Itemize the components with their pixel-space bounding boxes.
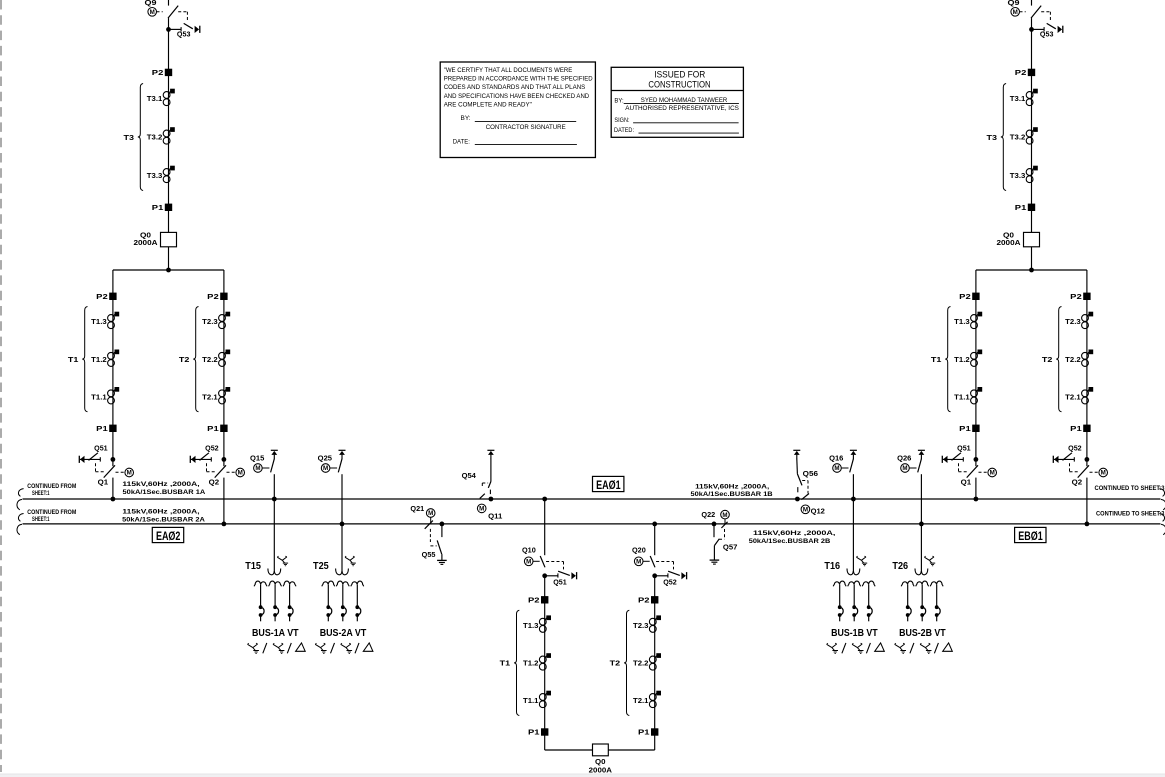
svg-text:P2: P2 [528, 597, 540, 604]
svg-text:T2.3: T2.3 [633, 623, 649, 630]
svg-text:T16: T16 [824, 561, 840, 572]
svg-text:M: M [323, 465, 328, 472]
svg-text:P2: P2 [1070, 294, 1082, 301]
svg-text:T3.2: T3.2 [1010, 135, 1026, 142]
svg-text:EAØ1: EAØ1 [596, 480, 621, 492]
svg-text:M: M [990, 470, 995, 477]
svg-text:CONTINUED TO SHEET:3: CONTINUED TO SHEET:3 [1096, 510, 1165, 517]
svg-text:Q9: Q9 [145, 0, 157, 7]
svg-text:T1.2: T1.2 [523, 661, 539, 668]
svg-text:50kA/1Sec.BUSBAR 1A: 50kA/1Sec.BUSBAR 1A [123, 489, 206, 496]
svg-text:50kA/1Sec.BUSBAR 2A: 50kA/1Sec.BUSBAR 2A [122, 516, 205, 523]
svg-text:P1: P1 [638, 730, 650, 737]
svg-text:AND SPECIFICATIONS HAVE BEEN C: AND SPECIFICATIONS HAVE BEEN CHECKED AND [444, 93, 590, 100]
svg-text:T3.1: T3.1 [147, 96, 163, 103]
svg-text:115kV,60Hz ,2000A,: 115kV,60Hz ,2000A, [122, 481, 199, 488]
svg-text:115kV,60Hz ,2000A,: 115kV,60Hz ,2000A, [122, 509, 199, 516]
svg-text:T25: T25 [313, 561, 329, 572]
svg-text:Q12: Q12 [811, 508, 825, 515]
svg-text:BUS-1B VT: BUS-1B VT [831, 628, 878, 639]
svg-text:ARE COMPLETE AND READY": ARE COMPLETE AND READY" [444, 102, 533, 109]
svg-text:Q53: Q53 [1040, 31, 1054, 38]
svg-text:Q52: Q52 [205, 446, 219, 453]
svg-text:T2.3: T2.3 [1065, 319, 1081, 326]
svg-text:Q51: Q51 [553, 579, 567, 586]
svg-text:SHEET:1: SHEET:1 [32, 490, 50, 497]
svg-text:Q9: Q9 [1008, 0, 1020, 7]
svg-text:Q1: Q1 [961, 479, 972, 486]
svg-text:Q22: Q22 [701, 512, 715, 519]
svg-text:BY:: BY: [461, 115, 471, 122]
svg-text:50kA/1Sec.BUSBAR 1B: 50kA/1Sec.BUSBAR 1B [691, 491, 773, 498]
svg-text:BUS-2A VT: BUS-2A VT [320, 628, 367, 639]
svg-text:M: M [834, 465, 839, 472]
svg-text:T2.2: T2.2 [1065, 357, 1081, 364]
svg-text:P1: P1 [528, 730, 540, 737]
svg-text:EAØ2: EAØ2 [156, 531, 181, 543]
svg-text:Q56: Q56 [803, 471, 818, 478]
svg-text:M: M [428, 510, 433, 517]
svg-text:CONTRACTOR SIGNATURE: CONTRACTOR SIGNATURE [486, 124, 567, 131]
svg-text:T3.3: T3.3 [147, 173, 163, 180]
svg-text:M: M [1101, 470, 1106, 477]
svg-text:Q54: Q54 [462, 473, 476, 480]
svg-text:T2.2: T2.2 [633, 661, 649, 668]
svg-text:T2.2: T2.2 [202, 357, 218, 364]
svg-text:Q0: Q0 [595, 759, 606, 766]
svg-text:M: M [238, 470, 243, 477]
svg-text:2000A: 2000A [134, 240, 158, 247]
svg-text:M: M [479, 506, 484, 513]
svg-text:Q20: Q20 [632, 548, 646, 555]
svg-text:BUS-1A VT: BUS-1A VT [252, 628, 299, 639]
svg-text:CONTINUED FROM: CONTINUED FROM [27, 483, 76, 490]
svg-text:2000A: 2000A [997, 240, 1021, 247]
svg-text:M: M [526, 559, 531, 566]
svg-text:DATED:: DATED: [614, 127, 634, 134]
svg-text:T2: T2 [1042, 357, 1053, 364]
svg-text:Q0: Q0 [140, 232, 151, 239]
svg-text:T3.2: T3.2 [147, 135, 163, 142]
svg-text:P1: P1 [152, 205, 164, 212]
svg-text:T1.1: T1.1 [954, 395, 970, 402]
svg-text:SYED MOHAMMAD TANWEER: SYED MOHAMMAD TANWEER [641, 97, 728, 104]
svg-text:P1: P1 [1015, 205, 1027, 212]
svg-text:P2: P2 [1015, 70, 1027, 77]
svg-text:CONTINUED TO SHEET:3: CONTINUED TO SHEET:3 [1095, 485, 1165, 492]
svg-text:50kA/1Sec.BUSBAR 2B: 50kA/1Sec.BUSBAR 2B [749, 538, 831, 545]
svg-text:T2.1: T2.1 [202, 395, 218, 402]
svg-text:115kV,60Hz ,2000A,: 115kV,60Hz ,2000A, [753, 530, 836, 537]
svg-text:Q52: Q52 [1068, 446, 1082, 453]
svg-text:M: M [902, 465, 907, 472]
svg-text:BY:: BY: [614, 98, 623, 105]
svg-text:SHEET:1: SHEET:1 [32, 516, 50, 523]
svg-text:Q51: Q51 [94, 446, 108, 453]
svg-text:M: M [722, 512, 727, 519]
svg-text:115kV,60Hz ,2000A,: 115kV,60Hz ,2000A, [695, 484, 769, 491]
svg-text:P1: P1 [207, 426, 219, 433]
svg-text:BUS-2B VT: BUS-2B VT [899, 628, 946, 639]
svg-text:M: M [636, 559, 641, 566]
svg-text:Q25: Q25 [318, 455, 332, 462]
svg-text:Q52: Q52 [663, 579, 677, 586]
svg-text:T2.1: T2.1 [1065, 395, 1081, 402]
svg-text:CODES AND STANDARDS AND THAT A: CODES AND STANDARDS AND THAT ALL PLANS [444, 84, 586, 91]
svg-text:Q2: Q2 [209, 479, 220, 486]
svg-text:Q11: Q11 [488, 514, 502, 521]
svg-text:Q26: Q26 [897, 455, 911, 462]
svg-text:T2.1: T2.1 [633, 698, 649, 705]
svg-text:P2: P2 [207, 294, 219, 301]
svg-text:P1: P1 [959, 426, 971, 433]
svg-text:Q1: Q1 [98, 479, 109, 486]
svg-text:T3: T3 [987, 135, 998, 142]
svg-text:2000A: 2000A [589, 768, 612, 775]
svg-text:T2: T2 [179, 357, 190, 364]
svg-text:T1.1: T1.1 [523, 698, 539, 705]
svg-text:T2.3: T2.3 [202, 319, 218, 326]
svg-text:Q0: Q0 [1003, 232, 1014, 239]
svg-text:P2: P2 [638, 597, 650, 604]
svg-text:P1: P1 [96, 426, 108, 433]
svg-text:T3.1: T3.1 [1010, 96, 1026, 103]
svg-text:Q10: Q10 [522, 548, 536, 555]
svg-text:M: M [127, 470, 132, 477]
svg-text:M: M [150, 9, 155, 16]
svg-text:Q55: Q55 [422, 552, 436, 559]
svg-text:M: M [803, 507, 808, 514]
svg-text:P1: P1 [1070, 426, 1082, 433]
svg-text:T2: T2 [610, 661, 621, 668]
svg-text:T1.3: T1.3 [91, 319, 107, 326]
svg-text:T1.1: T1.1 [91, 395, 107, 402]
svg-text:M: M [255, 465, 260, 472]
svg-text:T1.2: T1.2 [91, 357, 107, 364]
svg-text:T1: T1 [68, 357, 79, 364]
svg-text:T3: T3 [124, 135, 135, 142]
svg-text:P2: P2 [152, 70, 164, 77]
svg-text:T1: T1 [500, 661, 511, 668]
svg-text:ISSUED FOR: ISSUED FOR [654, 69, 705, 79]
svg-text:EBØ1: EBØ1 [1018, 531, 1043, 543]
svg-text:T1.3: T1.3 [954, 319, 970, 326]
svg-text:SIGN:: SIGN: [614, 117, 629, 124]
svg-text:Q57: Q57 [723, 545, 738, 552]
svg-text:Q16: Q16 [829, 455, 843, 462]
svg-text:M: M [1013, 9, 1018, 16]
svg-text:T26: T26 [892, 561, 908, 572]
svg-text:PREPARED IN ACCORDANCE WITH TH: PREPARED IN ACCORDANCE WITH THE SPECIFIE… [444, 76, 593, 83]
svg-text:DATE:: DATE: [453, 139, 470, 146]
svg-text:T15: T15 [245, 561, 261, 572]
svg-text:Q51: Q51 [957, 446, 971, 453]
svg-text:T1.3: T1.3 [523, 623, 539, 630]
svg-text:T1: T1 [931, 357, 942, 364]
svg-text:P2: P2 [96, 294, 108, 301]
svg-text:Q21: Q21 [410, 506, 424, 513]
svg-text:Q53: Q53 [177, 31, 191, 38]
svg-text:AUTHORISED REPRESENTATIVE, ICS: AUTHORISED REPRESENTATIVE, ICS [625, 105, 739, 112]
svg-text:T1.2: T1.2 [954, 357, 970, 364]
svg-text:"WE CERTIFY THAT ALL DOCUMENTS: "WE CERTIFY THAT ALL DOCUMENTS WERE [444, 67, 573, 74]
svg-text:T3.3: T3.3 [1010, 173, 1026, 180]
svg-text:CONSTRUCTION: CONSTRUCTION [648, 79, 710, 89]
svg-text:P2: P2 [959, 294, 971, 301]
svg-text:Q2: Q2 [1072, 479, 1083, 486]
svg-text:Q15: Q15 [250, 455, 264, 462]
